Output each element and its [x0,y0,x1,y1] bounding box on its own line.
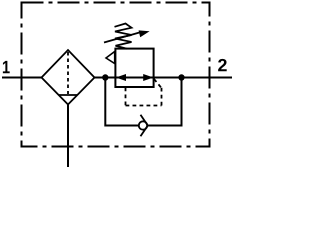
pilot line box (dashed) left edge [125,88,127,106]
adjustable spring (zigzag) [115,24,132,49]
wire: inlet line from port 1 to filter [2,77,42,79]
water separator baffle (chord line) [59,94,77,96]
relieving vent (open triangle on left of box) [106,52,115,64]
wire: outlet line to port 2 [153,77,232,79]
wire: bypass left leg [104,78,106,127]
pilot sensing line (dashed diagonal to downstream) [154,79,162,88]
check valve V1 (ball) [139,121,147,129]
port 1 label [3,61,10,73]
node: upstream junction [102,74,108,80]
pilot line box (dashed) bottom edge [126,105,162,107]
node: downstream junction [178,74,184,80]
check valve V1 (seat chevron) [141,115,148,136]
regulator U1 body (box) [115,49,153,87]
filter F1 body (diamond) [42,50,95,105]
wire: filter outlet to regulator inlet [95,77,117,79]
adjustment arrow (diagonal through spring) [104,32,142,43]
filter element (dashed center line) [67,52,69,94]
port 2 label [218,59,227,71]
wire: condensate drain line [67,105,69,168]
regulator flow path (double-headed arrow) [116,77,153,79]
enclosure border (dash-dot assembly boundary) [22,3,210,147]
pilot line box (dashed) right edge [161,88,163,106]
wire: bypass right leg [181,78,183,127]
wire: bypass bottom run [105,125,181,127]
